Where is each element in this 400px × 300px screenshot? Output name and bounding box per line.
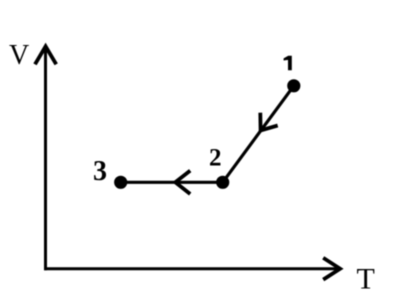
svg-text:3: 3 [93,156,107,187]
svg-text:V: V [9,40,29,71]
svg-text:2: 2 [209,145,222,172]
svg-text:T: T [357,263,375,296]
